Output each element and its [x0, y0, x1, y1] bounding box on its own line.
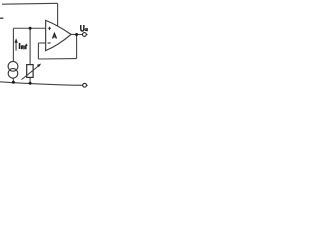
- wire resistor branch vertical: [29, 28, 31, 64]
- node junction bottom rail middle: [29, 82, 32, 85]
- node junction output feedback: [75, 33, 78, 36]
- label output voltage subscript a: [85, 28, 88, 31]
- wire stub right of bottom terminal: [87, 84, 88, 86]
- wire supply drop to op-amp top edge: [57, 3, 59, 26]
- label current Iref subscript f: [25, 44, 27, 49]
- wire feedback bottom horizontal: [38, 58, 76, 60]
- arrow reference current Iref shaft: [15, 42, 17, 51]
- label output voltage letter U: [81, 25, 84, 31]
- wire feedback right vertical: [76, 34, 78, 58]
- arrow reference current Iref head: [14, 38, 18, 43]
- op-amp minus input symbol: [48, 42, 51, 44]
- resistor R1 adjustment arrow shaft: [22, 66, 39, 80]
- wire top positive supply rail: [2, 2, 58, 5]
- label current Iref subscript r: [21, 46, 23, 50]
- op-amp U1 triangle body: [46, 20, 71, 50]
- node junction bottom rail left: [12, 81, 15, 84]
- op-amp plus input symbol: [48, 27, 51, 30]
- label op-amp gain A: [53, 34, 57, 39]
- node junction resistor branch top: [29, 27, 32, 30]
- wire feedback left vertical: [37, 43, 39, 59]
- wire left branch vertical to current source: [12, 28, 14, 61]
- wire current source bottom lead: [12, 78, 14, 82]
- resistor R1 adjustable box: [27, 65, 33, 78]
- terminal output Ua open circle: [83, 33, 87, 37]
- wire resistor bottom lead: [29, 77, 31, 83]
- wire stub right of output terminal: [87, 34, 88, 36]
- current source I1 lower circle: [8, 69, 18, 79]
- resistor R1 adjustment arrowhead: [37, 64, 41, 68]
- wire bottom ground rail: [0, 82, 83, 86]
- current source I1 upper circle: [8, 61, 18, 71]
- terminal bottom right open circle: [83, 83, 87, 87]
- wire inverting input horizontal: [38, 42, 45, 44]
- wire non-inverting input node horizontal: [13, 27, 45, 29]
- label minus polarity tick at left edge: [0, 17, 3, 19]
- label current Iref letter I: [19, 43, 21, 49]
- label current Iref subscript e: [23, 46, 26, 49]
- wire op-amp output: [71, 33, 83, 35]
